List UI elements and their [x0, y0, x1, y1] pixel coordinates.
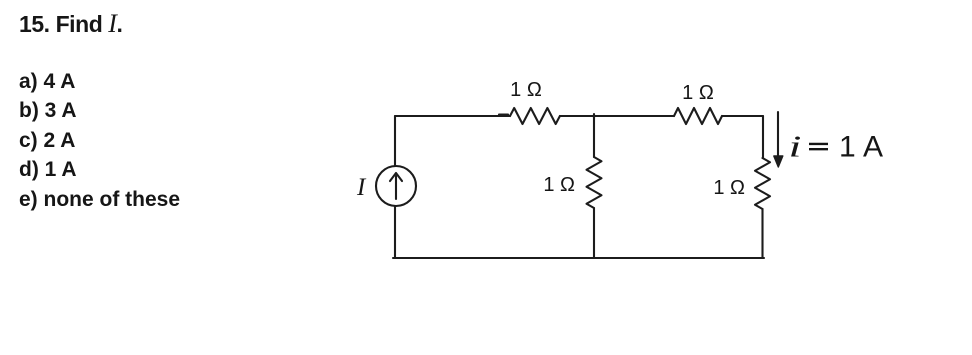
wire: middle vertical lower segment: [593, 208, 595, 258]
resistor R2 (top right, horizontal zigzag): [674, 108, 722, 124]
svg-text:1 Ω: 1 Ω: [543, 174, 575, 196]
wire: bottom horizontal segment: [393, 257, 764, 259]
svg-text:1: 1: [839, 131, 856, 164]
wire: overlap tick before R1: [499, 114, 508, 116]
current arrow i (pointing down): [774, 112, 783, 167]
svg-text:1 Ω: 1 Ω: [682, 82, 714, 104]
wire: right vertical upper segment: [762, 116, 764, 158]
svg-text:I: I: [356, 174, 367, 201]
current source I (circle with up arrow): [376, 166, 416, 206]
wire: top right horizontal segment: [722, 115, 763, 117]
svg-text:i: i: [789, 129, 802, 164]
wire: top-left horizontal segment: [395, 115, 510, 117]
wire: left vertical upper segment: [394, 116, 396, 166]
svg-text:1 Ω: 1 Ω: [510, 79, 542, 101]
svg-text:A: A: [863, 131, 883, 164]
label i = 1 A: [789, 129, 884, 164]
wire: middle vertical upper segment: [593, 116, 595, 157]
wire: right vertical lower segment: [761, 209, 763, 258]
wire: left vertical lower segment: [394, 206, 396, 258]
junction: middle top node: [593, 114, 595, 118]
answer options list: [19, 67, 180, 214]
wire: top middle horizontal segment: [560, 115, 674, 117]
title: 15. Find I.: [19, 9, 122, 39]
resistor R1 (top left, horizontal zigzag): [510, 108, 560, 124]
svg-text:1 Ω: 1 Ω: [713, 177, 745, 199]
resistor R3 (middle, vertical zigzag): [587, 157, 602, 208]
resistor R4 (right, vertical zigzag): [755, 158, 770, 209]
